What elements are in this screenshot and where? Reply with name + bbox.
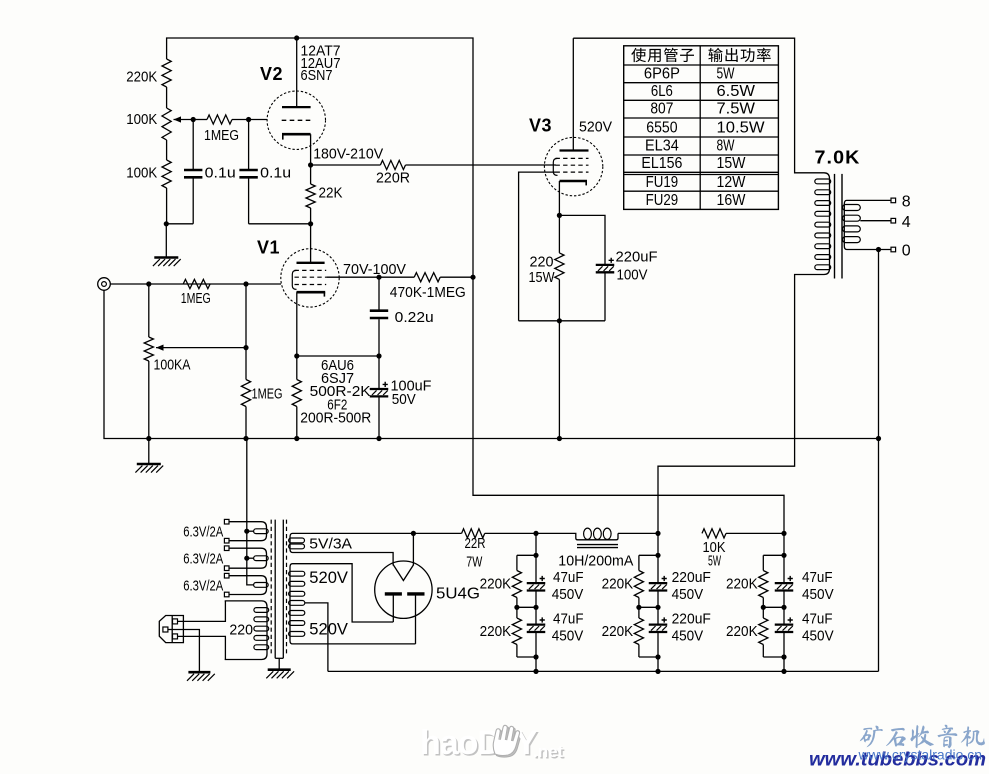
- table header 输出功率: [708, 48, 722, 62]
- wire: V1 cathode: [296, 292, 298, 356]
- wire: plug live to primary: [178, 601, 226, 622]
- node: [876, 436, 881, 441]
- wire: input to V1 grid: [110, 283, 281, 285]
- HV winding 520V-0-520V: [290, 564, 296, 644]
- watermark haoDIY.net: [420, 724, 565, 764]
- 5U4G filament: [393, 565, 414, 581]
- rectifier 5U4G envelope: [375, 561, 432, 618]
- resistor 220K (V2 grid divider top): [162, 59, 171, 87]
- svg-text:22R: 22R: [465, 535, 486, 552]
- wire: preamp B+ rail down to 10K output node: [473, 165, 784, 533]
- svg-text:220uF: 220uF: [672, 610, 711, 627]
- tube V3 grid bracket: [553, 158, 557, 175]
- capacitor 220uF 450V (lower): [649, 623, 668, 625]
- bleeder 220K (upper): [639, 554, 658, 556]
- ground (V2 divider): [165, 224, 167, 257]
- tube V1 cathode: [297, 291, 326, 294]
- svg-text:5V/3A: 5V/3A: [309, 536, 352, 553]
- svg-text:50V: 50V: [392, 391, 416, 408]
- svg-text:220K: 220K: [480, 623, 512, 640]
- capacitor 47uF 450V (lower): [775, 623, 794, 625]
- mains primary 220 winding: [225, 601, 267, 660]
- wire: PSU ground bus: [328, 670, 879, 672]
- wire: plug earth: [168, 630, 200, 672]
- heater winding 1: [224, 519, 229, 524]
- svg-text:807: 807: [650, 101, 673, 118]
- node: junction V2 plate on B+ rail: [294, 35, 299, 40]
- svg-text:22K: 22K: [319, 184, 343, 201]
- wire: [166, 140, 168, 160]
- svg-text:V3: V3: [529, 115, 552, 135]
- ground (PT core): [268, 668, 291, 671]
- potentiometer 100K (V2 grid divider): [162, 108, 171, 140]
- svg-text:1MEG: 1MEG: [181, 290, 211, 307]
- svg-text:47uF: 47uF: [553, 569, 584, 586]
- wire 220R to V3 grid: [406, 164, 556, 166]
- wire: OPT primary bottom to B+: [658, 275, 816, 534]
- svg-text:16W: 16W: [717, 192, 747, 209]
- node: [294, 436, 299, 441]
- svg-text:220R: 220R: [376, 170, 410, 187]
- capacitor 0.1u C2: [248, 120, 250, 170]
- svg-text:EL34: EL34: [645, 138, 679, 155]
- node: grid leak junction: [243, 281, 248, 286]
- svg-text:220K: 220K: [126, 68, 157, 85]
- svg-text:450V: 450V: [672, 586, 704, 603]
- svg-text:15W: 15W: [717, 155, 747, 172]
- capacitor 47uF 450V (upper): [775, 582, 794, 584]
- tube V3 grids (dashed): [556, 157, 589, 159]
- mains plug: [159, 616, 183, 643]
- bleeder 220K (upper): [517, 554, 536, 556]
- capacitor 220uF 450V (upper): [649, 582, 668, 584]
- wire C2 bottom to V1 plate node: [249, 223, 311, 225]
- svg-text:.net: .net: [533, 742, 564, 761]
- wire: V3 plate to OPT primary: [573, 38, 816, 173]
- capacitor 100uF 50V (cathode bypass): [378, 356, 380, 388]
- node: input/100KA junction: [146, 281, 151, 286]
- svg-text:47uF: 47uF: [802, 569, 833, 586]
- wire: HV bottom to right plate: [296, 643, 416, 645]
- tube V3 cathode: [560, 180, 588, 183]
- svg-text:6550: 6550: [646, 120, 677, 137]
- resistor 22K (V1 plate load): [310, 165, 312, 184]
- svg-text:450V: 450V: [672, 627, 704, 644]
- heater winding 3: [224, 573, 229, 578]
- mid junction: [763, 606, 784, 608]
- resistor 220 15W (cathode bias): [558, 215, 560, 253]
- svg-text:220uF: 220uF: [616, 248, 658, 265]
- resistor 100K (V2 grid divider bottom): [162, 160, 171, 188]
- wire: V3 suppressor to cathode bottom: [519, 172, 556, 321]
- node: [243, 436, 248, 441]
- svg-text:7.5W: 7.5W: [717, 101, 756, 118]
- filter node at x=658: [655, 531, 660, 536]
- bleeder 220K (lower): [762, 607, 764, 618]
- wire: signal ground row: [104, 290, 880, 438]
- wire: heater center taps: [247, 439, 254, 585]
- svg-text:10H/200mA: 10H/200mA: [558, 552, 633, 569]
- resistor 22R 7W: [462, 529, 485, 538]
- input jack: [98, 278, 111, 291]
- tube V3 envelope: [544, 137, 602, 195]
- OPT primary winding: [816, 173, 830, 275]
- svg-text:47uF: 47uF: [802, 610, 833, 627]
- mid junction: [639, 606, 658, 608]
- svg-text:0: 0: [902, 243, 911, 260]
- svg-text:450V: 450V: [802, 586, 834, 603]
- svg-text:220uF: 220uF: [672, 569, 711, 586]
- node: wiper/cap/1MEG junction: [191, 117, 196, 122]
- resistor 10K 5W: [702, 529, 726, 538]
- svg-text:6L6: 6L6: [651, 83, 673, 100]
- ground (input stage): [148, 439, 150, 464]
- wire: V1 screen grid to 470K: [326, 276, 414, 278]
- tube V2 plate: [296, 38, 298, 107]
- wire: 0 tap down to ground rows: [878, 250, 880, 672]
- svg-text:180V-210V: 180V-210V: [313, 146, 383, 163]
- wire: node down through caps: [783, 533, 785, 582]
- svg-text:450V: 450V: [552, 627, 584, 644]
- mid junction: [517, 606, 536, 608]
- svg-text:220: 220: [229, 621, 253, 638]
- node on ground bus: [533, 669, 538, 674]
- node: [557, 436, 562, 441]
- node: 0 tap to ground: [876, 247, 881, 252]
- svg-text:220K: 220K: [726, 576, 758, 593]
- svg-text:220K: 220K: [480, 576, 512, 593]
- PT core: [270, 520, 272, 656]
- node: 0.22u junction: [376, 275, 381, 280]
- svg-text:100K: 100K: [126, 111, 157, 128]
- svg-text:6.3V/2A: 6.3V/2A: [183, 551, 223, 568]
- capacitor 47uF 450V (upper): [527, 582, 546, 584]
- OPT core: [834, 174, 836, 279]
- wire down to ground row: [558, 321, 560, 439]
- svg-text:470K-1MEG: 470K-1MEG: [390, 284, 466, 301]
- wire: cathode node to 100uF: [297, 355, 379, 357]
- node: junction 470K-1MEG on B+ rail: [470, 275, 475, 280]
- wire: plug neutral to primary: [178, 636, 226, 659]
- wire: B+ row (rectifier output): [296, 532, 462, 534]
- node: divider bottom junction: [164, 221, 169, 226]
- svg-text:6.3V/2A: 6.3V/2A: [183, 524, 223, 541]
- resistor 470K-1MEG (screen feed): [414, 273, 440, 282]
- resistor 1MEG (V2 grid): [193, 119, 207, 121]
- wiper wire of 100KA: [156, 347, 246, 349]
- capacitor 220uF 100V (cathode bypass): [559, 215, 605, 264]
- svg-text:220K: 220K: [726, 623, 758, 640]
- svg-text:haoD: haoD: [420, 724, 501, 762]
- wire: HV top to left plate: [296, 564, 393, 622]
- svg-text:FU19: FU19: [646, 174, 679, 191]
- svg-text:15W: 15W: [529, 269, 556, 286]
- wire: secondary 8 tap: [850, 199, 891, 201]
- rectifier 5V/3A winding: [290, 533, 296, 552]
- wire: node down through caps: [535, 533, 537, 582]
- wire: filament to B+: [412, 533, 414, 565]
- tube V2 cathode: [282, 133, 311, 136]
- node on ground bus: [781, 669, 786, 674]
- bleeder 220K (lower): [516, 607, 518, 618]
- resistor 1MEG (input series): [183, 279, 210, 288]
- filter node at x=536: [533, 531, 538, 536]
- svg-text:6.5W: 6.5W: [717, 83, 756, 100]
- wire: cathode circuit bottom: [519, 320, 605, 322]
- svg-text:450V: 450V: [802, 627, 834, 644]
- node: [376, 436, 381, 441]
- 5U4G right plate: [407, 592, 424, 595]
- node on ground bus: [655, 669, 660, 674]
- resistor 1MEG (grid leak): [245, 284, 247, 380]
- wiper wire of 100K pot: [174, 119, 194, 121]
- bleeder 220K (lower): [638, 607, 640, 618]
- wire: node down through caps: [657, 533, 659, 582]
- svg-text:520V: 520V: [579, 118, 612, 135]
- node: C2 top junction: [246, 117, 251, 122]
- heater winding 2: [224, 546, 229, 551]
- svg-text:47uF: 47uF: [553, 610, 584, 627]
- tube V1 plate: [310, 224, 312, 262]
- watermark 矿石收音机: [860, 726, 883, 748]
- svg-text:100K: 100K: [126, 165, 157, 182]
- svg-text:520V: 520V: [309, 569, 348, 587]
- wire: secondary 4 tap: [860, 220, 891, 222]
- node: V1 plate junction: [308, 221, 313, 226]
- tube V2 grid (dashed): [282, 119, 311, 121]
- svg-text:8: 8: [902, 194, 911, 211]
- svg-text:5W: 5W: [708, 553, 721, 570]
- tube V1 envelope: [281, 249, 339, 307]
- resistor 220R: [380, 160, 405, 169]
- svg-text:450V: 450V: [552, 586, 584, 603]
- bleeder 220K (upper): [763, 554, 784, 556]
- svg-text:100KA: 100KA: [154, 356, 191, 373]
- node: V2 cathode / 22K / 220R junction: [308, 162, 313, 167]
- wire: 5V to 5U4G filament left: [296, 553, 393, 566]
- svg-text:0.22u: 0.22u: [395, 309, 434, 326]
- svg-text:220K: 220K: [602, 576, 634, 593]
- potentiometer 100KA (volume): [148, 284, 150, 337]
- table: tube types / output power: [624, 46, 779, 210]
- svg-text:1MEG: 1MEG: [252, 386, 283, 403]
- svg-text:0.1u: 0.1u: [260, 165, 291, 182]
- svg-text:520V: 520V: [309, 621, 348, 639]
- filter node at x=784: [781, 531, 786, 536]
- svg-text:12W: 12W: [717, 174, 747, 191]
- svg-text:www.crystalradio.cn: www.crystalradio.cn: [858, 747, 982, 763]
- wire to 220R: [311, 164, 381, 166]
- svg-text:FU29: FU29: [646, 192, 679, 209]
- svg-text:V2: V2: [260, 64, 283, 84]
- svg-text:1MEG: 1MEG: [204, 127, 239, 144]
- choke 10H/200mA: [536, 533, 618, 539]
- 5U4G left plate: [385, 592, 402, 595]
- svg-text:7.0K: 7.0K: [815, 148, 861, 168]
- tube V1 grids (dashed): [295, 269, 327, 271]
- resistor 500R-2K (V1 cathode): [296, 356, 298, 380]
- svg-text:200R-500R: 200R-500R: [300, 410, 371, 427]
- tube V2 envelope: [267, 91, 325, 149]
- svg-text:5W: 5W: [717, 65, 736, 82]
- svg-text:6P6P: 6P6P: [644, 65, 680, 82]
- wire: V2 cathode down: [310, 134, 312, 165]
- capacitor 0.1u C1: [192, 120, 194, 170]
- svg-text:70V-100V: 70V-100V: [343, 261, 406, 278]
- capacitor 0.22u (screen bypass): [378, 277, 380, 309]
- wire: preamp B+ top rail: [167, 38, 473, 165]
- svg-text:8W: 8W: [717, 138, 736, 155]
- svg-text:100V: 100V: [617, 267, 648, 284]
- svg-text:V1: V1: [257, 237, 280, 257]
- wire: HV center tap to ground bus: [305, 603, 328, 672]
- svg-text:4: 4: [902, 214, 911, 231]
- table header 使用管子: [631, 48, 646, 62]
- svg-text:6.3V/2A: 6.3V/2A: [183, 577, 223, 594]
- ground (mains earth): [188, 671, 210, 674]
- capacitor 47uF 450V (lower): [527, 623, 546, 625]
- wire: secondary 0 tap: [850, 249, 891, 251]
- wire: V3 cathode down: [558, 181, 560, 215]
- wire: [166, 188, 168, 224]
- svg-text:EL156: EL156: [641, 155, 682, 172]
- tube V3 plate: [572, 38, 574, 150]
- node: [146, 436, 151, 441]
- node: rectifier cathode junction: [411, 531, 416, 536]
- OPT secondary winding: [844, 200, 850, 249]
- svg-text:10.5W: 10.5W: [717, 120, 766, 137]
- svg-text:7W: 7W: [466, 554, 483, 571]
- svg-text:0.1u: 0.1u: [205, 165, 236, 182]
- svg-text:6SN7: 6SN7: [301, 67, 333, 84]
- wire to cap C1 bottom: [166, 223, 193, 225]
- tube V1 grid bracket: [292, 270, 296, 289]
- svg-text:220K: 220K: [602, 623, 634, 640]
- svg-text:5U4G: 5U4G: [436, 586, 480, 603]
- wire: [166, 87, 168, 108]
